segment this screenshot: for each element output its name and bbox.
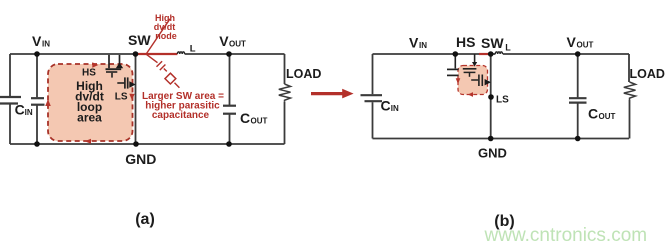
svg-text:C: C — [240, 110, 250, 126]
svg-text:OUT: OUT — [599, 112, 616, 121]
svg-text:capacitance: capacitance — [152, 110, 210, 121]
svg-text:LOAD: LOAD — [630, 67, 665, 81]
svg-text:L: L — [190, 44, 196, 55]
svg-text:OUT: OUT — [229, 39, 246, 48]
svg-text:V: V — [219, 33, 229, 49]
svg-text:SW: SW — [128, 32, 151, 48]
svg-text:www.cntronics.com: www.cntronics.com — [484, 225, 648, 246]
svg-text:LS: LS — [496, 95, 509, 106]
svg-text:LOAD: LOAD — [286, 67, 321, 81]
svg-text:V: V — [409, 34, 419, 50]
svg-text:IN: IN — [42, 40, 50, 49]
svg-text:(a): (a) — [135, 211, 155, 228]
svg-text:area: area — [77, 111, 102, 125]
svg-text:L: L — [505, 43, 511, 53]
svg-text:OUT: OUT — [251, 117, 268, 126]
svg-text:V: V — [567, 34, 577, 50]
svg-text:node: node — [155, 31, 177, 41]
svg-text:C: C — [381, 97, 391, 113]
svg-text:LS: LS — [115, 91, 128, 102]
svg-text:IN: IN — [25, 108, 33, 117]
svg-text:GND: GND — [125, 151, 156, 167]
svg-text:HS: HS — [456, 34, 475, 50]
svg-text:HS: HS — [82, 67, 96, 78]
svg-text:IN: IN — [391, 104, 399, 113]
svg-text:IN: IN — [419, 41, 427, 50]
svg-text:GND: GND — [478, 145, 507, 160]
svg-text:SW: SW — [481, 35, 504, 51]
svg-text:V: V — [32, 33, 42, 49]
svg-text:C: C — [588, 106, 598, 122]
svg-text:C: C — [15, 102, 25, 118]
svg-text:OUT: OUT — [577, 41, 594, 50]
